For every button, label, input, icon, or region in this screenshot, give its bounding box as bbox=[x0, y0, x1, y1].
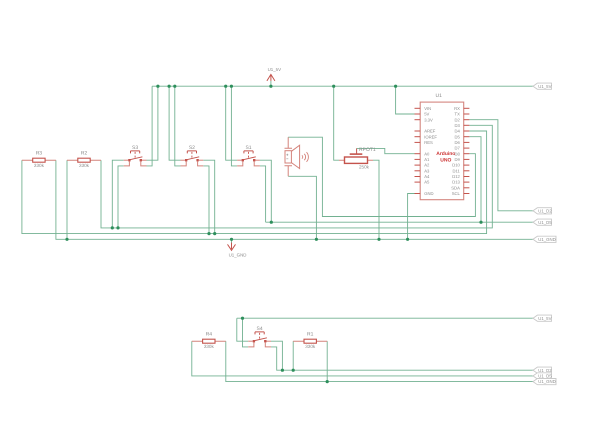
svg-text:330k: 330k bbox=[79, 163, 90, 168]
wire net D2: U1 D2 pin to D2 line to flag bbox=[469, 120, 533, 211]
svg-text:U1_5V: U1_5V bbox=[268, 67, 281, 72]
resistor R3 leads bbox=[22, 159, 56, 161]
net flag U1_D2 bbox=[533, 367, 552, 373]
pushbutton S3 contact left bbox=[128, 159, 130, 161]
U1 pin D13 lead bbox=[464, 181, 470, 183]
junction dots D4 line at S2 right columns bbox=[207, 232, 210, 235]
svg-text:3.3V: 3.3V bbox=[424, 117, 433, 122]
svg-text:RPOT1: RPOT1 bbox=[359, 147, 376, 153]
net flag U1_D2 bbox=[533, 208, 552, 214]
pushbutton S3 pin 1 lead upper-left bbox=[124, 159, 129, 161]
wire S2 upper-right pin down to D4 line bbox=[203, 160, 214, 233]
pushbutton S4 pin 1 lead upper-left bbox=[248, 340, 253, 342]
pushbutton S3 actuator bracket bbox=[131, 151, 140, 154]
svg-text:U1_D5: U1_D5 bbox=[538, 220, 552, 225]
resistor R4 leads bbox=[192, 340, 226, 342]
svg-text:S1: S1 bbox=[245, 145, 251, 151]
svg-text:SDA: SDA bbox=[451, 185, 460, 190]
wire S2 lower-left pin to 5V rail bbox=[175, 86, 181, 166]
U1 pin D3 lead bbox=[464, 124, 470, 126]
wire R1 right lead down to GND line bbox=[326, 341, 328, 381]
pushbutton S1 contact right bbox=[253, 159, 255, 161]
pushbutton S2 contact left bbox=[185, 159, 187, 161]
pushbutton S4 pin 2 lead upper-right bbox=[267, 340, 272, 342]
junction dot bottom D2 line at R1 left column bbox=[292, 369, 295, 372]
pushbutton S3 dashed stem bbox=[134, 152, 136, 158]
junction dots D3 line at S3 left columns bbox=[111, 226, 114, 229]
svg-text:U1_GND: U1_GND bbox=[538, 379, 555, 384]
svg-text:D12: D12 bbox=[452, 174, 460, 179]
svg-text:U1_D2: U1_D2 bbox=[538, 208, 552, 213]
speaker SP1 sound waves bbox=[302, 152, 309, 162]
wire S4 upper-right pin down to D2 line bbox=[271, 341, 282, 370]
U1 pin D10 lead bbox=[464, 164, 470, 166]
svg-text:U1_GND: U1_GND bbox=[229, 253, 247, 258]
U1 pin 5V lead bbox=[415, 113, 421, 115]
wire net D5 bottom: R4 left lead down, D5 line to flag bbox=[192, 341, 533, 376]
pushbutton S2 lever bbox=[186, 157, 199, 160]
junction dot GND line at RPOT1 column bbox=[377, 238, 380, 241]
wire speaker bottom down to GND line bbox=[288, 176, 316, 239]
pushbutton S2 actuator bracket bbox=[187, 151, 196, 154]
resistor R1 body bbox=[304, 339, 316, 343]
U1 pin A1 lead bbox=[415, 158, 421, 160]
pushbutton S1 lever bbox=[243, 157, 256, 160]
wire U1_5V power stub bbox=[270, 81, 272, 86]
speaker SP1 top lead bbox=[285, 137, 293, 148]
wire net D5: S1 upper-right pin down to D5 line bbox=[260, 160, 271, 222]
U1 pin D5 lead bbox=[464, 136, 470, 138]
pushbutton S1 contact left bbox=[242, 159, 244, 161]
svg-text:R2: R2 bbox=[81, 151, 88, 157]
wire S4 upper-left pin up to 5V line bbox=[237, 318, 248, 341]
junction dot bottom 5V line at S4 lower-left column bbox=[241, 317, 244, 320]
junction dot bottom D2 line at S4 upper-right column bbox=[281, 369, 284, 372]
pushbutton S2 pin 1 lead upper-left bbox=[181, 159, 186, 161]
wire 5V rail corner down to S3 lower-right pin bbox=[147, 86, 153, 166]
pushbutton S2 pin 3 drop and lead lower-left bbox=[181, 161, 187, 166]
junction dot bottom GND line at R1 right column bbox=[326, 380, 329, 383]
U1 pin GND lead bbox=[415, 193, 421, 195]
svg-text:D8: D8 bbox=[455, 151, 461, 156]
svg-text:A5: A5 bbox=[424, 180, 430, 185]
net flag U1_GND bbox=[533, 236, 556, 242]
pushbutton S3 lever bbox=[129, 157, 142, 160]
U1 pin SCL lead bbox=[464, 193, 470, 195]
U1 pin D9 lead bbox=[464, 158, 470, 160]
svg-text:D6: D6 bbox=[455, 140, 461, 145]
svg-text:5V: 5V bbox=[424, 112, 429, 117]
wire net D5: S1 lower-right pin down to D5 line bbox=[260, 166, 266, 222]
U1 pin A4 lead bbox=[415, 176, 421, 178]
potentiometer RPOT1 leads bbox=[339, 159, 373, 161]
pushbutton S1 dashed stem bbox=[248, 152, 250, 158]
U1 pin D11 lead bbox=[464, 170, 470, 172]
wire U1 D5 pin down to D5 line bbox=[469, 137, 481, 223]
pushbutton S3 pin 4 drop and lead lower-right bbox=[141, 161, 147, 166]
U1 pin D12 lead bbox=[464, 176, 470, 178]
U1 pin 3.3V lead bbox=[415, 119, 421, 121]
U1 pin AREF lead bbox=[415, 130, 421, 132]
ground symbol U1_GND arrow bbox=[228, 243, 236, 251]
wire S1 lower-left pin to 5V rail bbox=[231, 86, 237, 166]
svg-text:R4: R4 bbox=[206, 332, 213, 338]
resistor R2 leads bbox=[67, 159, 101, 161]
pushbutton S1 pin 2 lead upper-right bbox=[255, 159, 260, 161]
U1 pin D2 lead bbox=[464, 119, 470, 121]
svg-text:A4: A4 bbox=[424, 174, 430, 179]
pushbutton S1 pin 1 lead upper-left bbox=[237, 159, 242, 161]
svg-text:GND: GND bbox=[424, 191, 433, 196]
pushbutton S2 contact right bbox=[196, 159, 198, 161]
pushbutton S1 actuator bracket bbox=[244, 151, 253, 154]
svg-text:VIN: VIN bbox=[424, 106, 431, 111]
svg-text:A3: A3 bbox=[424, 168, 430, 173]
speaker SP1 cone bbox=[291, 145, 299, 168]
junction dot GND line at ground stub bbox=[230, 238, 233, 241]
wire S2 lower-right pin down to D4 line bbox=[203, 166, 209, 234]
U1 pin A3 lead bbox=[415, 170, 421, 172]
pushbutton S2 pin 2 lead upper-right bbox=[199, 159, 204, 161]
junction dot D5 line at U1 D5 column bbox=[479, 221, 482, 224]
pushbutton S3 pin 3 drop and lead lower-left bbox=[124, 161, 130, 166]
U1 pin D4 lead bbox=[464, 130, 470, 132]
speaker SP1 pin marks bbox=[286, 154, 288, 159]
svg-text:D3: D3 bbox=[455, 123, 461, 128]
pushbutton S4 dashed stem bbox=[259, 333, 261, 339]
svg-text:U1_GND: U1_GND bbox=[538, 237, 555, 242]
resistor R3 body bbox=[33, 158, 45, 162]
svg-text:SCL: SCL bbox=[452, 191, 461, 196]
pushbutton S4 pin 4 drop and lead lower-right bbox=[265, 342, 271, 347]
wire RPOT1 left terminal to 5V rail bbox=[334, 86, 339, 160]
svg-text:UNO: UNO bbox=[440, 157, 451, 163]
svg-text:D11: D11 bbox=[453, 168, 461, 173]
junction dot D5 line at S1 upper-right column bbox=[270, 221, 273, 224]
svg-text:D2: D2 bbox=[455, 117, 461, 122]
svg-text:RX: RX bbox=[454, 106, 460, 111]
wire 5V rail bbox=[152, 85, 533, 87]
resistor R2 body bbox=[78, 158, 90, 162]
svg-text:A2: A2 bbox=[424, 163, 430, 168]
wire S4 lower-left pin up to 5V line bbox=[243, 318, 249, 347]
junction dots on 5V rail bbox=[156, 85, 159, 88]
svg-text:A0: A0 bbox=[424, 151, 430, 156]
svg-text:D9: D9 bbox=[455, 157, 461, 162]
wire S3 upper-left pin down to D3 line bbox=[112, 160, 123, 228]
svg-text:250k: 250k bbox=[359, 165, 370, 170]
U1 pin D8 lead bbox=[464, 153, 470, 155]
svg-text:S3: S3 bbox=[132, 145, 138, 151]
wire bottom 5V line to flag bbox=[237, 317, 533, 319]
svg-text:R3: R3 bbox=[36, 151, 43, 157]
wire net D4: R3 left lead down, D4 line, up to U1 D4 pin bbox=[22, 131, 487, 234]
pushbutton S4 pin 3 drop and lead lower-left bbox=[248, 342, 254, 347]
wire net D3: R2 right lead down, D3 line, up to U1 D3 pin bbox=[101, 125, 492, 228]
net flag U1_5V bbox=[533, 83, 552, 89]
U1 pin A5 lead bbox=[415, 181, 421, 183]
net flag U1_D5 bbox=[533, 219, 552, 225]
wire S1 upper-left pin to 5V rail bbox=[226, 86, 237, 160]
pushbutton S3 pin 2 lead upper-right bbox=[142, 159, 147, 161]
wire net A0: RPOT1 wiper to U1 A0 pin bbox=[357, 148, 415, 153]
wire S3 upper-right pin to 5V rail bbox=[147, 86, 158, 160]
wire net GND: R3 right lead down, GND line to flag bbox=[56, 160, 533, 239]
pushbutton S2 pin 4 drop and lead lower-right bbox=[198, 161, 204, 166]
junction dot GND line at speaker column bbox=[315, 238, 318, 241]
U1 pin IOREF lead bbox=[415, 136, 421, 138]
speaker SP1 body box bbox=[285, 151, 291, 163]
pushbutton S1 pin 3 drop and lead lower-left bbox=[237, 161, 243, 166]
svg-text:D4: D4 bbox=[455, 129, 461, 134]
op-amp U1 Arduino UNO body box bbox=[420, 102, 464, 200]
svg-text:D10: D10 bbox=[452, 163, 460, 168]
wire R1 left lead down to D2 line bbox=[292, 341, 294, 370]
power symbol U1_5V arrow bbox=[267, 74, 275, 81]
U1 pin D7 lead bbox=[464, 147, 470, 149]
svg-text:TX: TX bbox=[455, 112, 461, 117]
U1 pin TX lead bbox=[464, 113, 470, 115]
pushbutton S4 actuator bracket bbox=[255, 332, 264, 335]
junction dot GND line at R2 left column bbox=[65, 238, 68, 241]
net flag U1_D5 bbox=[533, 373, 552, 379]
pushbutton S3 contact right bbox=[140, 159, 142, 161]
svg-text:AREF: AREF bbox=[424, 129, 436, 134]
U1 pin SDA lead bbox=[464, 187, 470, 189]
resistor R4 body bbox=[203, 339, 215, 343]
net flag U1_GND bbox=[533, 379, 556, 385]
potentiometer RPOT1 wiper stem bbox=[356, 148, 358, 154]
wire net D5 horizontal line to flag bbox=[266, 221, 533, 223]
svg-text:U1_5V: U1_5V bbox=[538, 316, 551, 321]
potentiometer RPOT1 wiper bar bbox=[350, 153, 363, 155]
svg-text:IOREF: IOREF bbox=[424, 134, 437, 139]
wire U1_GND ground stub bbox=[231, 239, 233, 244]
U1 pin D6 lead bbox=[464, 141, 470, 143]
potentiometer RPOT1 body bbox=[345, 157, 368, 163]
svg-text:330k: 330k bbox=[34, 163, 45, 168]
wire net D2 bottom: S4 lower-right pin down, D2 line to flag bbox=[271, 347, 533, 370]
wire net D8: speaker top to U1 D8 pin bbox=[288, 137, 475, 216]
U1 pin A0 lead bbox=[415, 153, 421, 155]
resistor R1 leads bbox=[293, 340, 327, 342]
svg-text:U1_5V: U1_5V bbox=[538, 84, 551, 89]
svg-text:330k: 330k bbox=[305, 344, 316, 349]
svg-text:D13: D13 bbox=[452, 180, 460, 185]
pushbutton S1 pin 4 drop and lead lower-right bbox=[254, 161, 260, 166]
U1 pin VIN lead bbox=[415, 107, 421, 109]
svg-text:D5: D5 bbox=[455, 134, 461, 139]
pushbutton S4 lever bbox=[254, 338, 267, 341]
junction dot GND line at U1 GND column bbox=[406, 238, 409, 241]
wire net GND bottom: R4 right lead down, GND line to flag bbox=[226, 341, 533, 381]
speaker SP1 bottom lead bbox=[285, 166, 293, 177]
svg-text:S4: S4 bbox=[257, 326, 263, 332]
U1 pin RES lead bbox=[415, 141, 421, 143]
svg-text:Arduino: Arduino bbox=[436, 151, 455, 157]
wire S3 lower-left pin down to D3 line bbox=[118, 166, 124, 228]
svg-text:U1: U1 bbox=[435, 93, 442, 99]
svg-text:R1: R1 bbox=[307, 332, 314, 338]
wire U1 5V pin to 5V rail bbox=[396, 86, 415, 114]
svg-text:D7: D7 bbox=[455, 146, 461, 151]
svg-text:U1_D5: U1_D5 bbox=[538, 374, 552, 379]
net flag U1_5V bbox=[533, 315, 552, 321]
U1 pin A2 lead bbox=[415, 164, 421, 166]
svg-text:330k: 330k bbox=[204, 344, 215, 349]
wire R2 left lead down to GND line bbox=[66, 160, 68, 239]
pushbutton S4 contact left bbox=[253, 340, 255, 342]
svg-text:U1_D2: U1_D2 bbox=[538, 368, 552, 373]
wire U1 GND pin down to GND line bbox=[408, 194, 415, 240]
svg-text:S2: S2 bbox=[189, 145, 195, 151]
svg-text:A1: A1 bbox=[424, 157, 430, 162]
U1 pin RX lead bbox=[464, 107, 470, 109]
svg-text:RES: RES bbox=[424, 140, 433, 145]
pushbutton S4 contact right bbox=[264, 340, 266, 342]
pushbutton S2 dashed stem bbox=[191, 152, 193, 158]
wire S2 upper-left pin to 5V rail bbox=[169, 86, 180, 160]
wire RPOT1 right terminal down to GND line bbox=[373, 160, 379, 239]
